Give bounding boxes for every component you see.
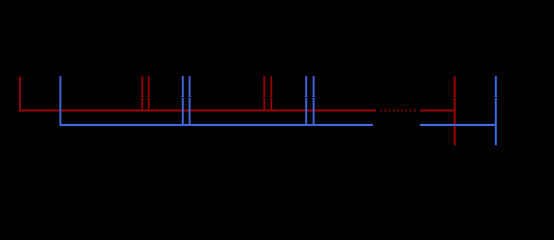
capacitor C3b (right line of first blue shunt pair) [188, 76, 191, 125]
capacitor C4a (left line of second blue shunt pair) [305, 76, 308, 125]
capacitor C5 (red terminating capacitor at right) [453, 76, 456, 145]
capacitor C1a (left line of first red shunt pair) [141, 76, 144, 111]
capacitor C6 (blue terminating capacitor at right) [494, 76, 497, 145]
capacitor C1b (right line of first red shunt pair) [147, 76, 150, 111]
capacitor C4b (right line of second blue shunt pair) [312, 76, 315, 125]
wire: blue input terminal lead [59, 76, 61, 126]
wire: red top rail dotted ellipsis segment [380, 110, 416, 112]
wire: red input terminal lead [19, 77, 21, 112]
capacitor C3a (left line of first blue shunt pair) [181, 76, 184, 125]
wire: red top rail solid left segment [19, 110, 376, 112]
capacitor C2a (left line of second red shunt pair) [263, 76, 266, 111]
capacitor C2b (right line of second red shunt pair) [270, 76, 273, 111]
wire: blue bottom rail solid left segment [60, 124, 373, 126]
wire: blue bottom rail solid right segment [420, 124, 496, 126]
wire: red top rail solid right segment [420, 110, 455, 112]
